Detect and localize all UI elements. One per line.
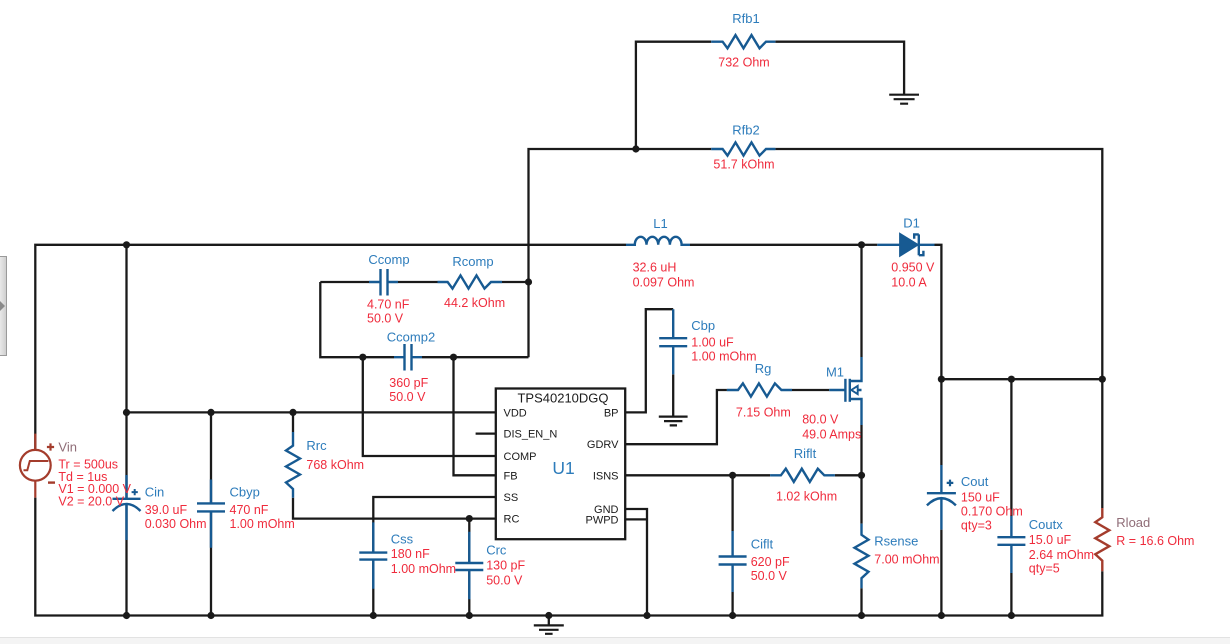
svg-text:U1: U1 [552, 458, 574, 478]
resistor Rfb1 [711, 35, 775, 48]
node bottom rail Rsense [858, 612, 865, 619]
svg-text:Rg: Rg [755, 361, 772, 376]
diode D1 schottky [877, 234, 934, 255]
node bottom rail Css [370, 612, 377, 619]
svg-text:51.7 kOhm: 51.7 kOhm [713, 158, 774, 172]
svg-text:DIS_EN_N: DIS_EN_N [504, 429, 558, 441]
node top rail M1 drain [858, 241, 865, 248]
wire ISNS to Riflt [625, 474, 770, 476]
wire Rload top [1101, 379, 1103, 508]
svg-text:Rcomp: Rcomp [452, 254, 493, 269]
svg-text:Ciflt: Ciflt [751, 537, 774, 552]
svg-text:7.00 mOhm: 7.00 mOhm [874, 553, 939, 567]
svg-text:L1: L1 [653, 216, 667, 231]
node bottom rail Cin [123, 612, 130, 619]
svg-text:1.00 mOhm: 1.00 mOhm [391, 562, 456, 576]
ground symbol Cbp [659, 417, 688, 426]
svg-text:Vin: Vin [58, 440, 77, 455]
svg-text:50.0 V: 50.0 V [367, 311, 404, 325]
capacitor Cout plus sign [947, 480, 954, 487]
capacitor Ccomp2 [394, 344, 422, 371]
capacitor Cbyp [197, 480, 225, 548]
svg-text:qty=5: qty=5 [1029, 562, 1060, 576]
wire Cout vertical [940, 379, 942, 615]
wire top rail L1 to M1 drain node [690, 244, 862, 246]
wire SS pin to Css [373, 497, 496, 552]
svg-text:44.2 kOhm: 44.2 kOhm [444, 296, 505, 310]
svg-text:Cout: Cout [961, 474, 989, 489]
svg-text:732 Ohm: 732 Ohm [718, 56, 769, 70]
svg-text:49.0 Amps: 49.0 Amps [802, 427, 861, 441]
inductor L1 [626, 237, 690, 245]
node bottom rail Crc [466, 612, 473, 619]
resistor Rg [727, 383, 792, 396]
capacitor Coutx [997, 516, 1025, 573]
svg-text:Rload: Rload [1116, 515, 1150, 530]
svg-text:150 uF: 150 uF [961, 491, 1000, 505]
resistor Rsense [855, 524, 869, 589]
node Rcomp right junction [525, 278, 532, 285]
svg-text:50.0 V: 50.0 V [389, 390, 426, 404]
wire Rsense bottom [860, 588, 862, 615]
node bottom rail Cbyp [207, 612, 214, 619]
svg-text:0.097 Ohm: 0.097 Ohm [633, 275, 695, 289]
svg-text:COMP: COMP [504, 451, 537, 463]
node ISNS M1 source [858, 472, 865, 479]
svg-text:0.030 Ohm: 0.030 Ohm [145, 517, 207, 531]
wire output mid rail [941, 378, 1102, 380]
svg-text:Ccomp2: Ccomp2 [387, 329, 435, 344]
svg-text:10.0 A: 10.0 A [891, 275, 927, 289]
svg-text:768 kOhm: 768 kOhm [306, 458, 364, 472]
capacitor Css [359, 522, 387, 588]
wire M1 drain node to D1 anode [862, 244, 878, 246]
svg-text:50.0 V: 50.0 V [486, 573, 523, 587]
svg-text:Ccomp: Ccomp [368, 252, 409, 267]
wire Rg to M1 gate [792, 389, 829, 391]
capacitor Ciflt [719, 531, 747, 592]
wire DIS_EN_N stub [476, 432, 496, 434]
resistor Rrc [286, 432, 300, 498]
svg-text:180 nF: 180 nF [391, 547, 430, 561]
node bottom rail ground [545, 612, 552, 619]
wire BP to Cbp [625, 309, 673, 412]
node bottom rail Coutx [1008, 612, 1015, 619]
wire FB branch [454, 357, 496, 475]
transistor M1 nmos [829, 357, 861, 425]
node bottom rail U1 gnd [643, 612, 650, 619]
svg-text:Cin: Cin [145, 485, 165, 500]
source Vin circle [20, 434, 51, 498]
wire GND PWPD stubs [625, 509, 647, 616]
wire top rail Vin to L1 [35, 245, 626, 450]
svg-text:GDRV: GDRV [587, 439, 619, 451]
wire Ccomp to Rcomp [398, 281, 438, 283]
node mid rail Rload [1099, 376, 1106, 383]
node Rfb2 left junction [632, 145, 639, 152]
ui left panel tab [0, 256, 7, 356]
node RC row Crc [466, 515, 473, 522]
svg-text:Cbp: Cbp [691, 318, 715, 333]
wire Rcomp right to junction [502, 281, 529, 283]
svg-text:FB: FB [504, 470, 518, 482]
source Vin minus sign [48, 481, 55, 483]
svg-text:Coutx: Coutx [1029, 517, 1063, 532]
svg-text:50.0 V: 50.0 V [751, 569, 788, 583]
ui left panel tab arrow [0, 301, 5, 311]
svg-text:Css: Css [391, 531, 414, 546]
svg-text:470 nF: 470 nF [230, 503, 269, 517]
svg-text:130 pF: 130 pF [486, 558, 525, 572]
wire Rfb2 row right segment to Rload branch [775, 149, 1102, 379]
svg-text:620 pF: 620 pF [751, 555, 790, 569]
svg-text:4.70 nF: 4.70 nF [367, 297, 410, 311]
svg-text:Riflt: Riflt [794, 446, 817, 461]
wire Cin vertical lower [125, 503, 127, 616]
node VDD rail Rrc [289, 409, 296, 416]
svg-text:80.0 V: 80.0 V [802, 412, 839, 426]
wire Ccomp loop left [320, 282, 363, 357]
wire Cbp to ground [672, 374, 674, 416]
node VDD rail Cin [123, 409, 130, 416]
capacitor Cin plus sign [132, 489, 138, 495]
wire Ccomp left lead black [320, 281, 369, 283]
wire D1 cathode to Cout node corner [935, 245, 942, 379]
svg-text:qty=3: qty=3 [961, 519, 992, 533]
wire Rfb1 right to ground [775, 42, 904, 95]
svg-text:2.64 mOhm: 2.64 mOhm [1029, 548, 1094, 562]
ground symbol Rfb1 [889, 95, 919, 104]
svg-text:SS: SS [504, 492, 519, 504]
wire COMP branch [363, 357, 496, 456]
svg-text:Rfb1: Rfb1 [732, 11, 759, 26]
svg-text:1.00 mOhm: 1.00 mOhm [230, 517, 295, 531]
svg-text:TPS40210DGQ: TPS40210DGQ [517, 391, 608, 406]
capacitor Crc [455, 532, 483, 600]
svg-text:1.02 kOhm: 1.02 kOhm [776, 490, 837, 504]
wire Cin vertical upper [125, 245, 127, 499]
wire bottom ground rail [35, 498, 1102, 616]
ic U1 box [496, 389, 625, 540]
svg-text:Crc: Crc [486, 543, 507, 558]
wire Crc vertical [468, 519, 470, 616]
svg-text:R = 16.6 Ohm: R = 16.6 Ohm [1116, 534, 1194, 548]
capacitor Cbp [659, 309, 687, 374]
wire Ciflt vertical [731, 475, 733, 615]
svg-text:1.00 mOhm: 1.00 mOhm [691, 350, 756, 364]
svg-text:D1: D1 [903, 215, 920, 230]
svg-text:360 pF: 360 pF [389, 376, 428, 390]
wire Riflt right to M1 source node [835, 474, 862, 476]
capacitor Cout polarized [927, 465, 956, 530]
resistor Rfb2 [711, 142, 775, 155]
svg-text:0.950 V: 0.950 V [891, 260, 935, 274]
svg-text:BP: BP [604, 407, 619, 419]
svg-text:M1: M1 [826, 365, 844, 380]
wire main ground stub [548, 616, 550, 626]
svg-text:39.0 uF: 39.0 uF [145, 503, 188, 517]
svg-text:15.0 uF: 15.0 uF [1029, 533, 1072, 547]
ui bottom scrollbar strip [0, 637, 1230, 644]
node bottom rail Cout [938, 612, 945, 619]
resistor Rcomp [438, 275, 503, 288]
source Vin plus sign [47, 443, 54, 450]
node Ccomp2 left junction [359, 354, 366, 361]
wire Css bottom [372, 560, 374, 616]
wire Rfb1 left branch [636, 42, 711, 149]
node top rail Cin tap [123, 241, 130, 248]
capacitor Ccomp [369, 269, 398, 296]
svg-text:32.6 uH: 32.6 uH [633, 260, 677, 274]
svg-text:7.15 Ohm: 7.15 Ohm [736, 405, 791, 419]
svg-text:Rfb2: Rfb2 [732, 123, 759, 138]
resistor Riflt [770, 469, 835, 482]
node mid rail Cout [938, 376, 945, 383]
node VDD rail Cbyp [207, 409, 214, 416]
wire VDD rail [127, 411, 496, 413]
resistor Rload [1095, 508, 1109, 571]
svg-text:V2 = 20.0 V: V2 = 20.0 V [58, 495, 124, 509]
ground symbol main [534, 625, 564, 633]
wire GDRV to Rg [625, 390, 727, 444]
node Ccomp2 right junction [450, 354, 457, 361]
wire Coutx vertical [1010, 379, 1012, 615]
svg-text:VDD: VDD [504, 407, 527, 419]
node mid rail Coutx [1008, 376, 1015, 383]
node ISNS Ciflt [729, 472, 736, 479]
svg-text:0.170 Ohm: 0.170 Ohm [961, 505, 1023, 519]
node bottom rail Ciflt [729, 612, 736, 619]
wire Rfb2 row left segment [529, 149, 712, 357]
svg-text:PWPD: PWPD [586, 514, 619, 526]
wire Cbyp vertical [210, 412, 212, 615]
svg-text:RC: RC [504, 514, 520, 526]
svg-text:Cbyp: Cbyp [230, 485, 260, 500]
svg-text:Rrc: Rrc [306, 438, 327, 453]
svg-text:Rsense: Rsense [874, 533, 918, 548]
wire M1 source to Rsense [860, 425, 862, 524]
svg-text:1.00 uF: 1.00 uF [691, 336, 734, 350]
svg-text:ISNS: ISNS [593, 470, 619, 482]
wire Rrc branch to RC pin [293, 412, 496, 518]
wire Ccomp2 row [363, 356, 529, 358]
capacitor Cin polarized [113, 475, 141, 540]
wire M1 drain vertical [860, 245, 862, 357]
